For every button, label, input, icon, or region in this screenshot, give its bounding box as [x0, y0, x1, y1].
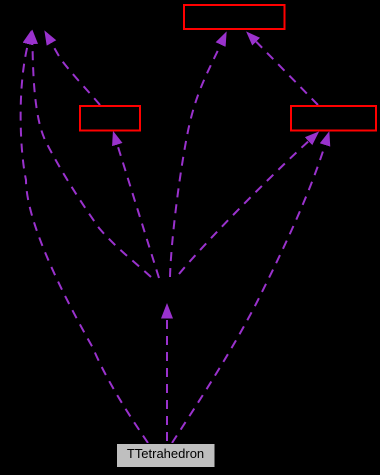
svg-text:TTetrahedron: TTetrahedron — [127, 446, 204, 461]
